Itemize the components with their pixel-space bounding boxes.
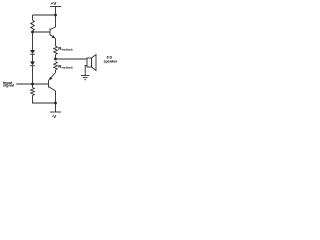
node dot Q2 base net xyxy=(31,31,34,34)
wire D1-D2 xyxy=(32,54,34,62)
wire to Q3 emitter xyxy=(55,70,57,73)
node dot speaker tap xyxy=(54,58,57,61)
diode D2 xyxy=(30,62,35,66)
speaker labels xyxy=(104,56,119,64)
wire Q2 emitter down xyxy=(55,39,57,47)
resistor Rfeedback 1 xyxy=(54,46,58,54)
resistor R1 (bias, left top) xyxy=(31,20,35,31)
wire D2 to input node xyxy=(32,66,34,85)
node dot input net xyxy=(31,83,34,86)
svg-text:feedback: feedback xyxy=(62,48,74,52)
wire D1 anode xyxy=(32,32,34,50)
ground xyxy=(81,76,89,80)
-V rail bar xyxy=(50,111,61,113)
node junction dot top xyxy=(54,14,57,17)
svg-text:feedback: feedback xyxy=(62,66,74,70)
wire below R1 xyxy=(32,31,34,32)
+V supply label xyxy=(51,1,57,6)
input labels xyxy=(3,81,14,88)
svg-text:signal: signal xyxy=(3,84,14,88)
wire top rail to left xyxy=(33,14,56,16)
wire input node down xyxy=(32,84,34,88)
wire input signal line xyxy=(16,83,48,85)
resistor Rfeedback 2 xyxy=(54,62,58,71)
resistor R2 (left bottom) xyxy=(31,88,35,96)
svg-text:+V: +V xyxy=(51,1,57,6)
wire to speaker node xyxy=(55,55,57,60)
wire left column upper xyxy=(32,15,34,20)
wire speaker feed xyxy=(56,58,88,60)
diode D1 xyxy=(30,50,35,54)
label Rfeedback 1 xyxy=(58,46,73,52)
transistor Q3 (PNP bottom) xyxy=(49,73,56,92)
node dot bottom junction xyxy=(54,102,57,105)
transistor Q2 (NPN top) xyxy=(50,15,56,39)
svg-text:speaker: speaker xyxy=(104,60,119,64)
speaker SP1 xyxy=(87,55,96,71)
-V supply label xyxy=(52,114,56,119)
wire Q2 base xyxy=(33,31,51,33)
wire +V stem xyxy=(55,7,57,16)
wire Q3 collector down xyxy=(55,91,57,112)
label Rfeedback 2 xyxy=(58,64,73,70)
wire R2 down and right xyxy=(33,96,56,104)
wire speaker ground stub xyxy=(85,66,87,76)
+V rail bar xyxy=(50,6,61,8)
svg-text:-V: -V xyxy=(52,114,56,119)
